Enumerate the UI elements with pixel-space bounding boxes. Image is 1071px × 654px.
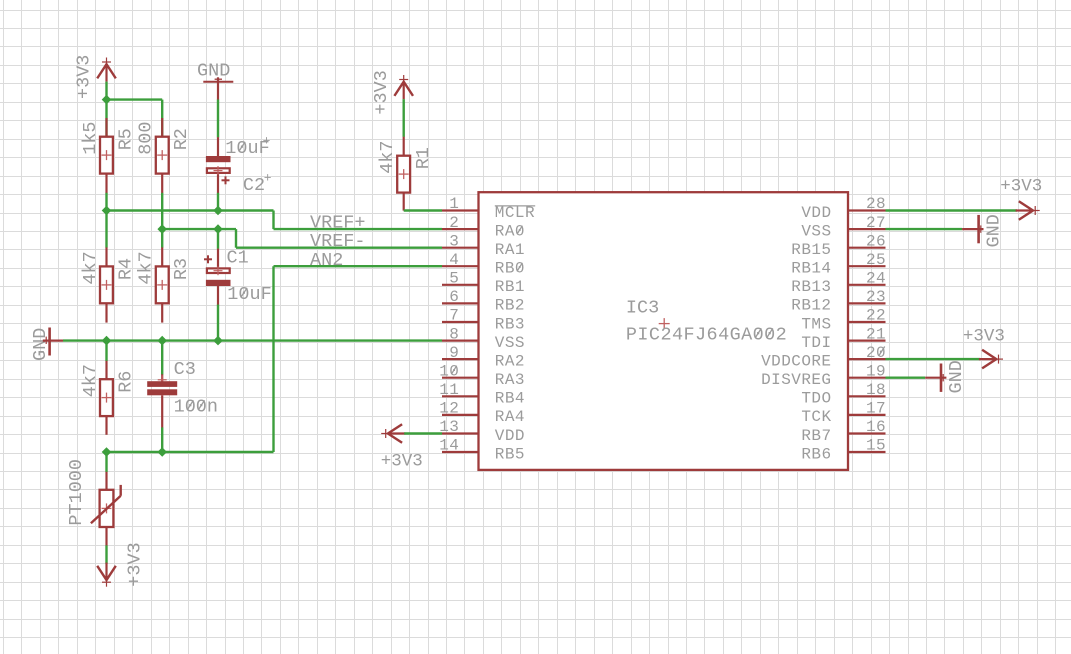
pin 18 stub [848, 395, 886, 397]
svg-text:4k7: 4k7 [80, 364, 101, 397]
svg-text:4: 4 [449, 251, 459, 269]
pin 25 stub [848, 265, 886, 267]
supply +3V3 arrow above R1 [399, 79, 408, 81]
wire R1 to MCLR pin [404, 209, 442, 211]
pin 9 stub [442, 358, 479, 360]
origin cross IC3 [659, 323, 670, 325]
pin 19 stub [848, 377, 886, 379]
svg-text:100n: 100n [174, 397, 218, 418]
svg-text:+3V3: +3V3 [74, 55, 95, 99]
resistor R1 [403, 137, 405, 156]
svg-text:PIC24FJ64GA002: PIC24FJ64GA002 [626, 325, 787, 346]
svg-text:R1: R1 [413, 147, 434, 169]
wire C1 to GND row [217, 305, 219, 341]
supply +3V3 arrow at VDD pin13 [381, 433, 390, 435]
wire PT1000 to +3V3 [105, 545, 107, 563]
svg-text:1k5: 1k5 [80, 121, 101, 154]
svg-text:18: 18 [866, 381, 886, 399]
svg-text:+3V3: +3V3 [1000, 177, 1042, 197]
svg-text:GND: GND [197, 61, 230, 82]
junction R3 bottom [157, 336, 167, 346]
overbar MCLR [495, 205, 535, 207]
svg-text:R4: R4 [116, 258, 137, 280]
resistor R6 [105, 341, 107, 361]
svg-text:RB2: RB2 [495, 297, 525, 315]
svg-text:14: 14 [439, 437, 459, 455]
svg-text:RA0: RA0 [495, 222, 525, 240]
pin 14 stub [442, 451, 479, 453]
pin 13 stub [442, 432, 479, 434]
svg-text:26: 26 [866, 232, 886, 250]
junction C3 bottom [157, 447, 167, 457]
wire VREF+ jog [272, 211, 274, 230]
pin 11 stub [442, 395, 479, 397]
svg-text:VSS: VSS [495, 334, 525, 352]
svg-text:VDDCORE: VDDCORE [761, 352, 831, 370]
wire GND row [63, 339, 442, 341]
supply +3V3 right top arrow [1031, 210, 1040, 212]
wire R5/R4 node row [105, 193, 107, 211]
resistor R4 [105, 211, 107, 248]
svg-text:AN2: AN2 [310, 250, 343, 271]
junction C1 top [213, 224, 223, 234]
pin 3 stub [442, 247, 479, 249]
resistor R2 [161, 118, 163, 136]
svg-text:8: 8 [449, 325, 459, 343]
svg-text:17: 17 [866, 400, 886, 418]
pin 20 stub [848, 358, 886, 360]
wire C2 to VREF+ row [217, 193, 219, 211]
svg-text:GND: GND [946, 360, 967, 393]
svg-text:800: 800 [135, 121, 156, 154]
pin 21 stub [848, 340, 886, 342]
wire R2 bottom to VREF- row [161, 193, 163, 229]
wire VDD pin28 to +3V3 [886, 209, 1017, 211]
svg-text:RB4: RB4 [495, 390, 525, 408]
pin 2 stub [442, 228, 479, 230]
thermistor PT1000 [105, 452, 107, 472]
capacitor C3 [161, 341, 163, 375]
svg-text:12: 12 [439, 400, 459, 418]
svg-text:24: 24 [866, 270, 886, 288]
svg-text:TMS: TMS [801, 315, 831, 333]
supply +3V3 bottom arrow [102, 581, 111, 583]
wire C3 to bottom row [161, 427, 163, 452]
resistor R5 [105, 118, 107, 136]
pin 7 stub [442, 321, 479, 323]
svg-text:RB1: RB1 [495, 278, 525, 296]
pin 5 stub [442, 284, 479, 286]
svg-text:15: 15 [866, 437, 886, 455]
svg-text:VDD: VDD [495, 427, 525, 445]
svg-text:20: 20 [866, 344, 886, 362]
svg-text:RA2: RA2 [495, 352, 525, 370]
pin 16 stub [848, 432, 886, 434]
svg-text:28: 28 [866, 195, 886, 213]
svg-text:5: 5 [449, 270, 459, 288]
wire VSS pin27 to GND [886, 228, 963, 230]
svg-text:19: 19 [866, 362, 886, 380]
svg-text:GND: GND [30, 328, 51, 361]
svg-text:RB13: RB13 [791, 278, 831, 296]
svg-text:RA3: RA3 [495, 371, 525, 389]
pin 17 stub [848, 414, 886, 416]
pin 4 stub [442, 265, 479, 267]
IC IC3 body [479, 192, 849, 470]
svg-text:C3: C3 [174, 359, 196, 380]
svg-text:+3V3: +3V3 [381, 452, 423, 472]
svg-text:VDD: VDD [801, 204, 831, 222]
resistor R3 [161, 229, 163, 248]
svg-text:4k7: 4k7 [135, 251, 156, 284]
pin 22 stub [848, 321, 886, 323]
svg-text:4k7: 4k7 [80, 251, 101, 284]
junction PT1000 top [102, 447, 112, 457]
polarity + of C1 [204, 258, 212, 260]
wire bottom AN2 row [107, 451, 274, 453]
svg-text:TCK: TCK [801, 408, 831, 426]
supply +3V3 top-left arrow [102, 61, 111, 63]
pin 8 stub [442, 340, 479, 342]
svg-text:2: 2 [449, 214, 459, 232]
slash zero pin10 [451, 366, 456, 375]
svg-text:R2: R2 [171, 128, 192, 150]
svg-text:4k7: 4k7 [377, 140, 398, 173]
svg-text:16: 16 [866, 418, 886, 436]
svg-text:C1: C1 [227, 248, 249, 269]
svg-text:7: 7 [449, 307, 459, 325]
svg-text:6: 6 [449, 288, 459, 306]
polarity + of C2 [222, 179, 230, 181]
wire AN2 jog up [272, 266, 274, 452]
wire VDDCORE pin20 to +3V3 [886, 358, 981, 360]
svg-text:RA1: RA1 [495, 241, 525, 259]
svg-text:RB7: RB7 [801, 427, 831, 445]
pin 23 stub [848, 302, 886, 304]
svg-text:RB0: RB0 [495, 260, 525, 278]
wire VREF- row [162, 228, 236, 230]
pin 1 stub [442, 209, 479, 211]
svg-text:11: 11 [439, 381, 459, 399]
wire +3V3 to R1 [403, 99, 405, 137]
svg-text:RB12: RB12 [791, 297, 831, 315]
svg-text:TDO: TDO [801, 390, 831, 408]
svg-text:25: 25 [866, 251, 886, 269]
pin 6 stub [442, 302, 479, 304]
svg-text:3: 3 [449, 232, 459, 250]
wire junction to R2 column [107, 98, 163, 100]
junction R3 top [157, 224, 167, 234]
supply GND right bottom [940, 364, 943, 392]
supply +3V3 right bottom arrow [994, 358, 1003, 360]
capacitor C1 polarized [217, 229, 219, 249]
capacitor C2 polarized [217, 137, 219, 156]
svg-text:22: 22 [866, 307, 886, 325]
svg-text:R5: R5 [116, 128, 137, 150]
svg-text:RB3: RB3 [495, 315, 525, 333]
pin 24 stub [848, 284, 886, 286]
svg-text:1: 1 [449, 195, 459, 213]
junction R4 bottom [102, 336, 112, 346]
svg-text:RB14: RB14 [791, 260, 831, 278]
svg-text:10uF: 10uF [227, 284, 271, 305]
wire DISVREG pin19 to GND [886, 377, 926, 379]
svg-text:23: 23 [866, 288, 886, 306]
pin 26 stub [848, 247, 886, 249]
junction C1 bottom [213, 336, 223, 346]
svg-text:+3V3: +3V3 [125, 542, 146, 586]
svg-text:RB5: RB5 [495, 445, 525, 463]
svg-text:C2: C2 [243, 175, 265, 196]
svg-text:+3V3: +3V3 [371, 70, 392, 114]
pin 28 stub [848, 209, 886, 211]
pin 12 stub [442, 414, 479, 416]
svg-text:9: 9 [449, 344, 459, 362]
svg-text:TDI: TDI [801, 334, 831, 352]
supply GND right top [977, 215, 980, 243]
svg-text:IC3: IC3 [626, 297, 659, 318]
svg-text:PT1000: PT1000 [66, 459, 87, 526]
svg-text:R3: R3 [171, 258, 192, 280]
svg-text:RB15: RB15 [791, 241, 831, 259]
svg-text:VSS: VSS [801, 222, 831, 240]
wire +3V3 to pin13 [404, 432, 442, 434]
wire GND to C2 [217, 100, 219, 138]
svg-text:+3V3: +3V3 [963, 327, 1005, 347]
junction C2 bottom [213, 206, 223, 216]
svg-text:DISVREG: DISVREG [761, 371, 831, 389]
svg-text:RA4: RA4 [495, 408, 525, 426]
svg-text:RB6: RB6 [801, 445, 831, 463]
svg-text:+: + [264, 170, 272, 185]
svg-text:27: 27 [866, 214, 886, 232]
svg-text:R6: R6 [116, 371, 137, 393]
wire +3V3 to R5 and junction [105, 82, 107, 136]
junction R5 bottom [102, 206, 112, 216]
svg-text:10: 10 [439, 362, 459, 380]
wire VREF- jog [235, 229, 237, 248]
junction at +3V3 node [102, 95, 112, 105]
svg-text:21: 21 [866, 325, 886, 343]
pin 10 stub [442, 377, 479, 379]
svg-text:+: + [263, 134, 271, 149]
svg-text:GND: GND [984, 214, 1005, 247]
pin 27 stub [848, 228, 886, 230]
svg-text:13: 13 [439, 418, 459, 436]
pin 15 stub [848, 451, 886, 453]
